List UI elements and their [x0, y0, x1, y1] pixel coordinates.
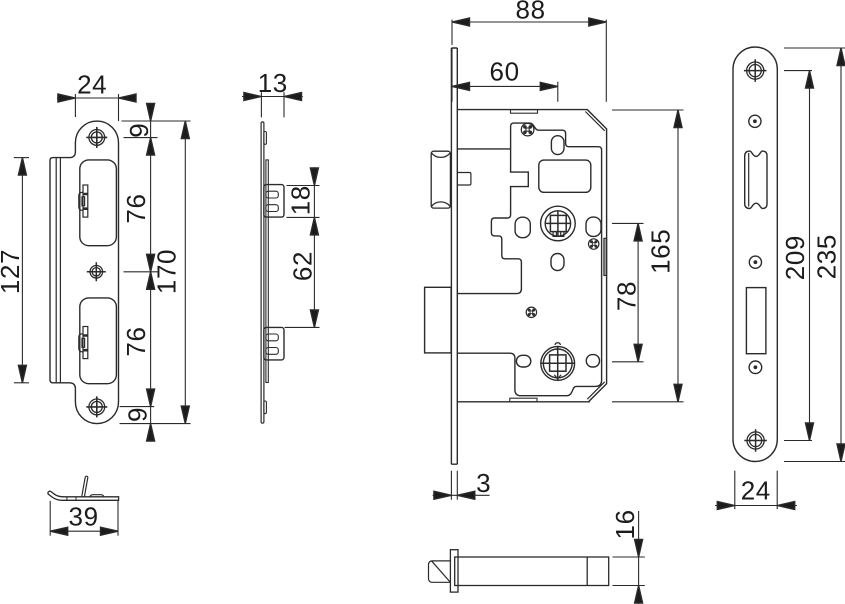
screw right of follower — [589, 239, 599, 249]
svg-text:60: 60 — [490, 57, 520, 87]
forend top screw — [744, 59, 767, 82]
spindle tip — [429, 561, 451, 582]
svg-text:24: 24 — [741, 476, 771, 506]
svg-text:88: 88 — [516, 0, 546, 25]
svg-text:76: 76 — [121, 326, 151, 356]
upper latch tab — [79, 185, 88, 217]
handle follower — [541, 206, 576, 241]
dimension 127 — [14, 158, 29, 383]
deadbolt — [425, 287, 452, 353]
svg-text:127: 127 — [0, 249, 25, 294]
forend faceplate outline — [733, 47, 777, 462]
oval hole left of follower — [515, 217, 530, 238]
side view top tab — [264, 132, 267, 145]
top view curved strike lip — [48, 491, 119, 500]
svg-text:13: 13 — [258, 68, 288, 98]
oval hole below follower — [551, 254, 564, 271]
svg-text:24: 24 — [77, 70, 107, 100]
forend small hole 1 — [749, 115, 761, 127]
dimension 170 — [184, 121, 186, 424]
svg-text:62: 62 — [288, 251, 318, 281]
forend deadbolt cutout — [746, 288, 766, 354]
dimension 24 (strike plate width) — [57, 94, 135, 121]
top fixing tab — [511, 110, 538, 114]
strike plate lip fold lines — [56, 158, 60, 383]
side view upper latch box — [264, 185, 284, 218]
oval hole top — [551, 136, 564, 155]
oval hole left of spindle — [516, 355, 530, 367]
strike plate top screw — [86, 127, 107, 148]
spindle bar shaft — [455, 557, 609, 586]
svg-text:165: 165 — [646, 229, 676, 274]
latch tail tab — [457, 173, 471, 186]
dimension 62 — [310, 310, 318, 328]
lock body faceplate strip — [451, 48, 457, 464]
top view upright tab — [82, 476, 88, 497]
dimension 16 — [613, 511, 645, 604]
side view strip — [261, 122, 264, 423]
right edge grey adjuster bar — [604, 238, 607, 275]
strike plate middle screw — [87, 262, 106, 281]
spindle follower — [541, 343, 575, 381]
dimension 24 (forend) — [715, 471, 797, 510]
forend latch cutout — [745, 151, 767, 208]
dimension 209 — [784, 71, 812, 441]
dimension chain 9/76/76/9 — [120, 104, 191, 440]
svg-text:9: 9 — [122, 407, 152, 422]
svg-text:76: 76 — [121, 193, 151, 223]
svg-text:235: 235 — [812, 234, 842, 279]
middle screw — [526, 307, 536, 317]
strike plate bottom screw — [86, 396, 107, 417]
strike plate lower latch opening — [80, 298, 117, 384]
svg-text:9: 9 — [124, 123, 154, 138]
side view bottom tab — [264, 401, 267, 414]
forend small hole 3 — [749, 361, 762, 374]
oval hole right of spindle — [586, 355, 599, 367]
svg-text:78: 78 — [612, 281, 642, 311]
dimension 18 — [285, 167, 320, 328]
forend small hole 2 — [749, 256, 761, 268]
side view lower latch box — [264, 327, 284, 360]
lock case contour — [457, 123, 601, 396]
spindle end cap line — [586, 557, 588, 586]
dimension 3 — [433, 471, 490, 500]
side view lip bar — [266, 160, 268, 383]
latch bolt — [431, 151, 450, 208]
dimension 78 — [612, 223, 644, 361]
case top-left screw — [521, 123, 534, 136]
dimension 60 — [452, 48, 558, 102]
spindle flange — [450, 550, 458, 592]
top view bump — [90, 495, 104, 497]
svg-text:18: 18 — [286, 185, 316, 215]
strike plate upper latch opening — [80, 160, 117, 246]
dimension 13 — [242, 92, 303, 117]
dimension 88 — [452, 20, 606, 102]
top chamfer inner line — [585, 112, 604, 131]
svg-text:209: 209 — [780, 235, 810, 280]
svg-text:39: 39 — [69, 502, 99, 532]
oval hole right of follower — [586, 217, 601, 236]
dimension 165 — [612, 110, 684, 402]
svg-text:3: 3 — [476, 468, 491, 498]
bottom fixing tab — [510, 398, 537, 402]
lower latch tab — [79, 327, 88, 359]
latch channel top line — [457, 148, 510, 150]
lock body outer silhouette — [457, 110, 606, 402]
dimension 235 — [784, 48, 845, 462]
bottom chamfer inner line — [587, 382, 604, 399]
forend bottom screw — [744, 429, 767, 452]
svg-text:16: 16 — [610, 509, 640, 539]
strike plate front view outline — [50, 121, 119, 423]
svg-text:170: 170 — [152, 249, 182, 294]
rectangular cutout — [539, 160, 591, 192]
dimension 39 — [50, 501, 118, 536]
